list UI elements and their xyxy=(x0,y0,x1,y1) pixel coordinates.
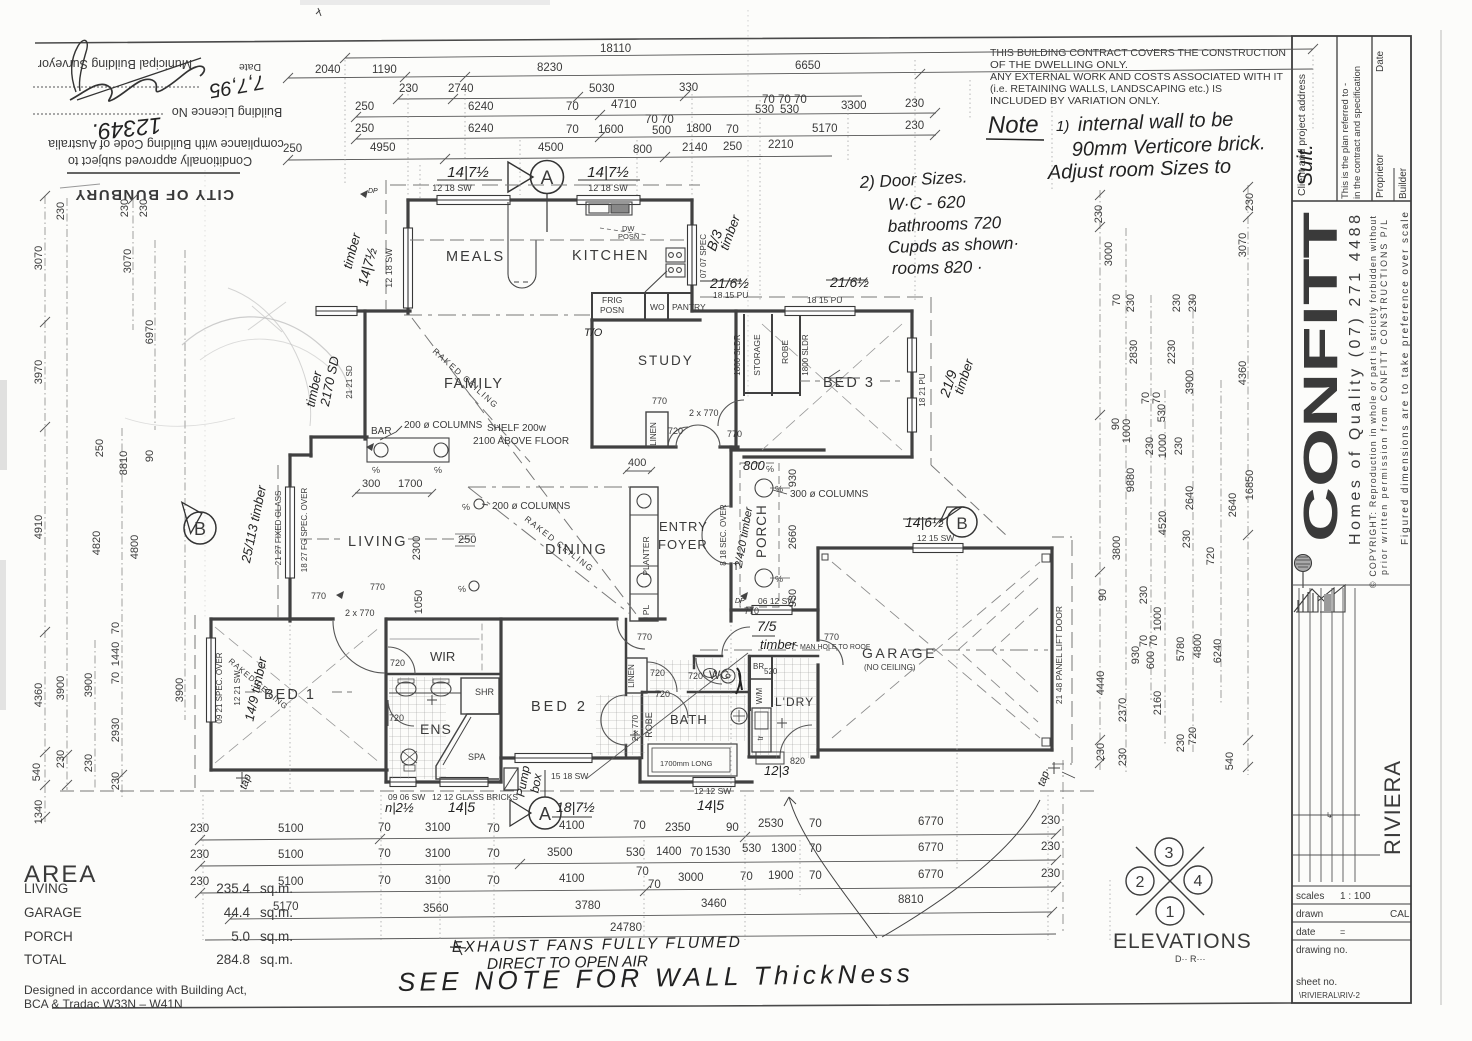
svg-text:770: 770 xyxy=(744,606,759,616)
svg-text:WIR: WIR xyxy=(430,649,455,664)
svg-text:540: 540 xyxy=(1224,752,1236,770)
svg-text:bathrooms 720: bathrooms 720 xyxy=(887,213,1002,236)
svg-text:230: 230 xyxy=(1138,586,1150,604)
svg-text:12 15 SW: 12 15 SW xyxy=(917,533,954,543)
window family west sd xyxy=(316,307,357,316)
svg-text:12 21 SW: 12 21 SW xyxy=(233,670,242,706)
window ens south glass bricks xyxy=(440,778,488,787)
svg-text:4520: 4520 xyxy=(1157,511,1169,535)
svg-text:720: 720 xyxy=(1187,727,1199,745)
tiled floor ldry xyxy=(774,658,816,758)
svg-text:18110: 18110 xyxy=(600,43,631,55)
svg-text:Builder: Builder xyxy=(1398,167,1409,199)
window bed1 west xyxy=(207,638,216,722)
svg-text:SHELF 200w: SHELF 200w xyxy=(487,423,547,434)
svg-text:230: 230 xyxy=(1175,734,1187,752)
door ens xyxy=(388,700,414,726)
bed3 raked dashes xyxy=(762,324,902,450)
bed1 raked ceiling dashes xyxy=(215,627,380,763)
dotted extension lines xyxy=(345,55,1313,300)
door entry double xyxy=(702,506,731,535)
svg-text:LIVING: LIVING xyxy=(348,534,408,550)
svg-text:770: 770 xyxy=(637,632,652,642)
svg-text:1400: 1400 xyxy=(656,846,682,858)
svg-text:4800: 4800 xyxy=(129,535,141,559)
svg-text:Note: Note xyxy=(988,111,1039,139)
wall meals west xyxy=(406,200,409,313)
svg-text:770: 770 xyxy=(824,632,839,642)
window ens south 1 xyxy=(390,778,416,787)
svg-text:230: 230 xyxy=(1181,530,1193,548)
wall study south xyxy=(592,445,676,448)
svg-text:12|3: 12|3 xyxy=(764,763,790,778)
svg-text:70: 70 xyxy=(633,820,646,832)
eave dash bed3-garage diagonal xyxy=(931,465,1008,537)
svg-text:BR: BR xyxy=(753,662,764,671)
wall living west xyxy=(288,455,291,621)
svg-text:3900: 3900 xyxy=(83,673,95,697)
svg-text:1000: 1000 xyxy=(1157,434,1169,458)
svg-text:LIVING: LIVING xyxy=(24,881,68,896)
wall family west xyxy=(363,311,366,439)
svg-text:18 21 PU: 18 21 PU xyxy=(918,373,927,407)
family raked ceiling dash xyxy=(412,318,636,614)
svg-text:14|6½: 14|6½ xyxy=(905,514,944,530)
tiled floor ens xyxy=(389,677,446,779)
linen closet bed2 xyxy=(626,658,647,693)
svg-text:1190: 1190 xyxy=(372,64,397,76)
svg-text:70: 70 xyxy=(809,870,822,882)
wall bed1 east / ens west xyxy=(384,619,387,782)
svg-text:1800 SLDR: 1800 SLDR xyxy=(801,334,810,376)
svg-text:230: 230 xyxy=(190,823,209,835)
svg-text:230: 230 xyxy=(905,98,924,110)
svg-text:230: 230 xyxy=(83,754,95,772)
svg-text:PL: PL xyxy=(641,605,651,616)
left dimension chain lines xyxy=(45,196,185,822)
svg-text:720: 720 xyxy=(688,671,703,681)
kitchen stove xyxy=(666,248,685,262)
svg-text:720: 720 xyxy=(668,426,683,436)
svg-text:540: 540 xyxy=(31,763,43,781)
svg-text:1600: 1600 xyxy=(598,124,624,136)
svg-text:230: 230 xyxy=(1041,815,1060,827)
svg-text:230: 230 xyxy=(119,199,131,217)
svg-text:internal wall to be: internal wall to be xyxy=(1077,109,1233,136)
svg-text:W·C - 620: W·C - 620 xyxy=(887,192,966,214)
svg-text:4500: 4500 xyxy=(538,142,564,154)
door linen study xyxy=(668,427,688,447)
svg-text:70: 70 xyxy=(566,101,579,113)
fw floor wastes xyxy=(630,730,640,740)
svg-text:1440: 1440 xyxy=(110,642,122,666)
wall porch south xyxy=(731,608,752,611)
section marker B right xyxy=(947,507,977,537)
svg-text:℅: ℅ xyxy=(775,574,783,584)
svg-text:2830: 2830 xyxy=(1128,340,1140,364)
wall wc-ldry north xyxy=(694,655,722,658)
svg-text:STORAGE: STORAGE xyxy=(752,334,762,376)
bottom dimension row 1 xyxy=(195,829,1061,845)
svg-text:FRIG: FRIG xyxy=(602,295,622,305)
ldry step xyxy=(756,752,784,764)
wall bed3 west closets xyxy=(743,315,745,395)
svg-text:℅: ℅ xyxy=(372,465,380,475)
wall bed3 east xyxy=(910,311,913,457)
svg-text:LINEN: LINEN xyxy=(649,422,658,446)
svg-text:230: 230 xyxy=(1173,437,1185,455)
svg-text:(i.e. RETAINING WALLS, LANDSCA: (i.e. RETAINING WALLS, LANDSCAPING etc.)… xyxy=(990,84,1222,95)
svg-text:6770: 6770 xyxy=(918,869,944,881)
svg-text:PANTRY: PANTRY xyxy=(672,302,706,312)
drawing no row xyxy=(1292,939,1411,941)
svg-text:230: 230 xyxy=(55,750,67,768)
right dimension chain lines xyxy=(1100,185,1248,775)
tiled floor wc xyxy=(696,658,747,690)
svg-text:12 12 SW: 12 12 SW xyxy=(694,786,731,796)
svg-text:70: 70 xyxy=(1111,294,1123,306)
dp marks xyxy=(360,190,368,198)
bed3 arrow marks xyxy=(828,370,860,386)
svg-text:GARAGE: GARAGE xyxy=(24,905,82,920)
wall garage north xyxy=(818,546,1052,549)
svg-text:Homes of Quality (07) 27: Homes of Quality (07) 271 4488 xyxy=(1347,215,1364,545)
svg-text:1530: 1530 xyxy=(705,846,731,858)
section marker B left xyxy=(175,502,216,544)
svg-text:ANY EXTERNAL WORK AND COSTS AS: ANY EXTERNAL WORK AND COSTS ASSOCIATED W… xyxy=(990,72,1283,83)
wall living-hall south xyxy=(290,617,333,620)
svg-text:230: 230 xyxy=(138,199,150,217)
svg-text:70: 70 xyxy=(1148,635,1160,647)
svg-text:4100: 4100 xyxy=(559,873,585,885)
window bed2 south xyxy=(515,754,592,763)
wall ens east lower xyxy=(499,758,502,782)
svg-text:250: 250 xyxy=(723,141,742,153)
wall kitchen east xyxy=(690,200,693,311)
svg-text:2370: 2370 xyxy=(1117,698,1129,722)
svg-text:230: 230 xyxy=(1187,294,1199,312)
window garage north xyxy=(913,544,963,553)
edge smudges xyxy=(0,380,7,470)
svg-text:3500: 3500 xyxy=(547,847,573,859)
svg-text:Building Licence No: Building Licence No xyxy=(172,105,283,119)
top dimension row 6 xyxy=(283,152,832,165)
svg-text:5100: 5100 xyxy=(278,849,304,861)
svg-text:70: 70 xyxy=(726,124,739,136)
svg-text:1000: 1000 xyxy=(1121,419,1133,443)
eave dash bed3 top xyxy=(700,296,930,298)
wall kitchen cells xyxy=(592,292,692,294)
svg-text:4360: 4360 xyxy=(33,683,45,707)
wall bed3 north xyxy=(692,309,912,312)
svg-text:2930: 2930 xyxy=(110,718,122,742)
svg-text:4820: 4820 xyxy=(91,531,103,555)
svg-text:2: 2 xyxy=(1136,874,1145,891)
svg-text:ELEVATIONS: ELEVATIONS xyxy=(1113,930,1252,953)
svg-text:7/5: 7/5 xyxy=(757,618,777,634)
svg-text:1700: 1700 xyxy=(398,478,422,490)
wall bath north xyxy=(642,691,660,694)
svg-text:90: 90 xyxy=(726,822,739,834)
window bed3 north xyxy=(785,307,855,316)
window meals west xyxy=(404,228,413,308)
svg-text:3070: 3070 xyxy=(1237,233,1249,257)
svg-text:date: date xyxy=(1296,927,1316,938)
fold dotted line xyxy=(747,10,749,400)
svg-text:tr: tr xyxy=(756,735,765,740)
date row xyxy=(1292,921,1411,923)
svg-text:(NO CEILING): (NO CEILING) xyxy=(864,663,916,672)
empty schedule column rules xyxy=(1292,585,1411,882)
svg-text:4950: 4950 xyxy=(370,142,396,154)
svg-text:MEALS: MEALS xyxy=(446,249,505,265)
svg-text:12 12 GLASS BRICKS: 12 12 GLASS BRICKS xyxy=(432,792,518,802)
top dimension row 2 xyxy=(283,69,1313,83)
top dimension row 5 xyxy=(351,130,940,144)
kitchen sink xyxy=(586,202,632,215)
svg-text:25/113 timber: 25/113 timber xyxy=(238,483,269,565)
svg-text:2140: 2140 xyxy=(682,142,708,154)
door bath xyxy=(662,692,688,718)
svg-text:LINEN: LINEN xyxy=(627,664,636,688)
svg-text:3000: 3000 xyxy=(678,872,704,884)
svg-text:3070: 3070 xyxy=(122,249,134,273)
svg-text:70: 70 xyxy=(648,879,661,891)
leader line wc xyxy=(586,653,748,779)
svg-text:6240: 6240 xyxy=(1212,639,1224,663)
signature scribble xyxy=(70,66,204,101)
svg-text:3560: 3560 xyxy=(423,903,449,915)
svg-text:06 12 SW: 06 12 SW xyxy=(758,596,795,606)
svg-text:WO: WO xyxy=(650,302,665,312)
svg-text:BCA & Tradac W33N – W41N: BCA & Tradac W33N – W41N xyxy=(24,997,183,1011)
svg-text:930: 930 xyxy=(1130,646,1142,664)
svg-text:1340: 1340 xyxy=(33,800,45,824)
ens shower xyxy=(461,678,499,714)
bed1 centreline dashes xyxy=(245,691,262,693)
door study double xyxy=(676,425,698,447)
svg-text:2230: 2230 xyxy=(1166,340,1178,364)
svg-text:5030: 5030 xyxy=(589,83,615,95)
svg-text:1050: 1050 xyxy=(413,590,425,614)
eave dash living west xyxy=(277,465,279,618)
svg-text:530: 530 xyxy=(780,104,799,116)
svg-text:5170: 5170 xyxy=(812,123,838,135)
pump box xyxy=(504,768,518,790)
door ldry external xyxy=(780,725,812,757)
svg-text:70: 70 xyxy=(809,818,822,830)
svg-text:230: 230 xyxy=(1093,205,1105,223)
leader V lines to exhaust note xyxy=(784,797,1040,938)
svg-text:2640: 2640 xyxy=(1227,493,1239,517)
svg-text:800: 800 xyxy=(743,458,765,473)
window bath south xyxy=(693,778,735,787)
svg-text:ENTRY: ENTRY xyxy=(659,519,708,534)
svg-text:14|7½: 14|7½ xyxy=(447,164,489,181)
wall bed1 west xyxy=(209,619,212,770)
svg-text:OF THE DWELLING ONLY.: OF THE DWELLING ONLY. xyxy=(990,60,1128,71)
svg-text:compliance with Building Code: compliance with Building Code of Austral… xyxy=(48,137,284,151)
svg-text:Proprietor: Proprietor xyxy=(1375,153,1386,198)
svg-text:250: 250 xyxy=(94,439,106,457)
svg-text:5100: 5100 xyxy=(278,823,304,835)
svg-text:BED 3: BED 3 xyxy=(823,375,875,391)
svg-text:Cupds as shown·: Cupds as shown· xyxy=(887,233,1019,257)
svg-text:820: 820 xyxy=(790,756,805,766)
drawn row xyxy=(1292,903,1411,905)
svg-text:SHR: SHR xyxy=(475,687,495,697)
wall garage west xyxy=(816,548,819,640)
window meals top 1 xyxy=(437,196,510,205)
svg-text:4710: 4710 xyxy=(611,99,637,111)
svg-text:14|5: 14|5 xyxy=(448,799,475,815)
svg-text:2300: 2300 xyxy=(411,536,423,560)
svg-text:This is the plan referred to: This is the plan referred to - xyxy=(1340,83,1351,199)
svg-text:230: 230 xyxy=(905,120,924,132)
svg-text:drawn: drawn xyxy=(1296,909,1323,920)
svg-text:rooms 820 ·: rooms 820 · xyxy=(892,257,983,278)
svg-text:720: 720 xyxy=(650,668,665,678)
svg-text:sheet no.: sheet no. xyxy=(1296,977,1337,988)
svg-text:ROBE: ROBE xyxy=(644,712,654,738)
svg-text:B: B xyxy=(194,519,206,539)
svg-text:drawing no.: drawing no. xyxy=(1296,945,1348,956)
svg-text:300 ø COLUMNS: 300 ø COLUMNS xyxy=(790,489,869,500)
svg-text:CAL: CAL xyxy=(1390,909,1410,920)
svg-text:9880: 9880 xyxy=(1125,468,1137,492)
svg-text:3970: 3970 xyxy=(33,360,45,384)
wall family north jog xyxy=(357,309,410,312)
svg-text:℅: ℅ xyxy=(766,464,774,474)
svg-text:Conditionally approved subject: Conditionally approved subject to xyxy=(68,154,252,168)
wall garage east xyxy=(1050,548,1053,750)
svg-text:21 21 SD: 21 21 SD xyxy=(345,365,354,399)
svg-text:3100: 3100 xyxy=(425,848,451,860)
bath basin xyxy=(731,708,747,724)
window bed3 east lower xyxy=(908,398,917,432)
window kitchen east xyxy=(688,225,697,285)
svg-text:3070: 3070 xyxy=(33,246,45,270)
svg-text:230: 230 xyxy=(1095,743,1107,761)
svg-text:2350: 2350 xyxy=(665,822,691,834)
svg-text:250: 250 xyxy=(355,123,374,135)
door bed1 xyxy=(333,621,385,673)
svg-text:300: 300 xyxy=(362,478,380,490)
svg-text:21 48 PANEL LIFT DOOR: 21 48 PANEL LIFT DOOR xyxy=(1054,606,1064,704)
svg-text:Date: Date xyxy=(1375,50,1386,72)
svg-text:SPA: SPA xyxy=(468,752,485,762)
svg-text:2640: 2640 xyxy=(1184,486,1196,510)
svg-text:tap: tap xyxy=(238,773,255,791)
svg-text:BAR: BAR xyxy=(371,426,392,437)
svg-text:© COPYRIGHT: Reproduction in: © COPYRIGHT: Reproduction in whole or pa… xyxy=(1368,215,1378,588)
wall garage south xyxy=(818,748,1052,751)
confitt house icon xyxy=(1294,555,1345,613)
svg-text:6650: 6650 xyxy=(795,60,821,72)
door hall end 770 xyxy=(722,627,750,655)
bed3 centreline dashes xyxy=(800,380,820,382)
svg-text:6770: 6770 xyxy=(918,842,944,854)
svg-text:4: 4 xyxy=(1194,873,1203,890)
svg-text:230: 230 xyxy=(1041,841,1060,853)
svg-text:530: 530 xyxy=(626,847,645,859)
svg-text:2/420 timber: 2/420 timber xyxy=(733,505,756,570)
svg-text:3300: 3300 xyxy=(841,100,867,112)
svg-text:200 ø COLUMNS: 200 ø COLUMNS xyxy=(404,420,483,431)
linen closet study xyxy=(646,412,668,447)
svg-text:RIVIERA: RIVIERA xyxy=(1380,760,1405,855)
svg-text:T/O: T/O xyxy=(584,327,603,339)
door wir xyxy=(388,647,415,674)
svg-text:16850: 16850 xyxy=(1244,470,1256,501)
wall bath west xyxy=(638,758,641,782)
svg-text:1000: 1000 xyxy=(1152,607,1164,631)
wall porch north xyxy=(731,448,824,451)
svg-text:1700mm LONG: 1700mm LONG xyxy=(660,759,713,768)
dining raked ceiling dash xyxy=(468,487,630,614)
svg-text:14|7½: 14|7½ xyxy=(587,164,629,181)
bottom dimension row 2 xyxy=(195,855,1061,871)
eave dash garage east xyxy=(1071,540,1073,765)
svg-text:8810: 8810 xyxy=(118,451,130,475)
svg-text:scales: scales xyxy=(1296,891,1324,902)
ens spa xyxy=(436,714,499,779)
svg-text:720: 720 xyxy=(390,658,405,668)
svg-text:230: 230 xyxy=(1117,748,1129,766)
svg-text:720: 720 xyxy=(389,713,404,723)
svg-text:PORCH: PORCH xyxy=(754,504,769,558)
svg-text:3900: 3900 xyxy=(1184,370,1196,394)
svg-text:INCLUDED BY VARIATION ONLY.: INCLUDED BY VARIATION ONLY. xyxy=(990,96,1160,107)
svg-text:DP: DP xyxy=(735,598,745,605)
svg-text:70: 70 xyxy=(378,875,391,887)
open plan divider dash xyxy=(404,314,590,316)
top dimension row 1: 18110 xyxy=(340,44,1318,63)
svg-text:8810: 8810 xyxy=(898,894,924,906)
svg-text:284.8: 284.8 xyxy=(216,952,250,967)
wall bed2 east xyxy=(625,619,628,695)
wall ens south xyxy=(386,780,501,783)
svg-text:230: 230 xyxy=(1125,294,1137,312)
svg-text:BED 2: BED 2 xyxy=(531,699,588,715)
meals ceiling dash xyxy=(410,239,688,241)
svg-text:4800: 4800 xyxy=(1192,634,1204,658)
svg-text:230: 230 xyxy=(190,876,209,888)
svg-text:timber: timber xyxy=(760,637,797,652)
wall ldry east lower xyxy=(748,692,751,757)
svg-text:1800 SLDR: 1800 SLDR xyxy=(733,334,742,376)
svg-text:4910: 4910 xyxy=(33,515,45,539)
svg-text:3: 3 xyxy=(1165,845,1174,862)
svg-text:6240: 6240 xyxy=(468,101,494,113)
wall bed1 north xyxy=(211,617,333,620)
svg-text:5780: 5780 xyxy=(1175,637,1187,661)
wall bed2 south xyxy=(501,756,640,759)
svg-text:POSN: POSN xyxy=(600,305,624,315)
svg-text:770: 770 xyxy=(370,582,385,592)
svg-text:44.4: 44.4 xyxy=(224,905,251,920)
svg-text:250: 250 xyxy=(355,101,374,113)
svg-text:770: 770 xyxy=(727,429,742,439)
wir shelf dashed xyxy=(390,638,479,640)
dining columns xyxy=(474,499,484,509)
door linen bed2 xyxy=(647,662,677,692)
svg-text:BATH: BATH xyxy=(670,712,708,727)
svg-text:930: 930 xyxy=(787,469,799,487)
svg-text:70: 70 xyxy=(487,823,500,835)
svg-text:EXHAUST FANS FULLY FLUMED: EXHAUST FANS FULLY FLUMED xyxy=(452,934,740,956)
svg-text:12 18 SW: 12 18 SW xyxy=(588,183,628,193)
